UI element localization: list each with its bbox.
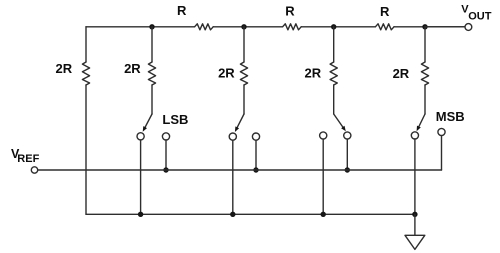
svg-text:R: R <box>380 4 390 19</box>
svg-text:2R: 2R <box>55 61 72 76</box>
resistor 2R branch5 <box>421 62 428 85</box>
terminal VREF <box>31 167 37 173</box>
svg-text:2R: 2R <box>393 66 410 81</box>
wire branch2 to switch <box>151 85 153 114</box>
svg-text:2R: 2R <box>124 61 141 76</box>
switch SW2 left contact <box>229 133 236 140</box>
svg-text:OUT: OUT <box>468 10 492 22</box>
node on rail branch 4 <box>331 24 336 29</box>
node on rail branch 2 <box>149 24 154 29</box>
wire branch3 to switch <box>243 85 245 114</box>
wire SW3 right contact to VREF line <box>346 139 348 170</box>
wire branch2 top <box>151 27 153 62</box>
switch SW3 left contact <box>320 132 327 139</box>
junction SW2 right on VREF line <box>253 167 258 172</box>
wire ground bus <box>86 213 415 215</box>
svg-text:2R: 2R <box>218 65 235 80</box>
resistor 2R branch1 <box>82 62 89 85</box>
junction SW3 right on VREF line <box>345 167 350 172</box>
wire to ground <box>414 214 416 235</box>
wire SW3 left contact to ground bus <box>322 139 324 214</box>
switch SW2 right contact <box>252 133 259 140</box>
switch SW4 lever (MSB) <box>418 114 425 128</box>
ground <box>405 235 425 249</box>
wire branch5 top <box>424 27 426 62</box>
junction bus branch2 <box>138 212 143 217</box>
svg-text:R: R <box>177 3 187 18</box>
resistor R3 <box>375 24 394 30</box>
switch SW1 lever (LSB) <box>145 114 152 128</box>
resistor 2R branch4 <box>330 62 337 85</box>
switch SW3 right contact <box>344 132 351 139</box>
wire branch4 top <box>333 27 335 62</box>
wire SW1 left contact to ground bus <box>140 140 142 214</box>
svg-text:2R: 2R <box>304 65 321 80</box>
resistor R2 <box>283 24 302 30</box>
junction bus branch4 <box>321 212 326 217</box>
resistor 2R branch3 <box>240 62 247 85</box>
node on rail branch 3 <box>241 24 246 29</box>
wire branch3 top <box>243 27 245 62</box>
resistor 2R branch2 <box>148 62 155 85</box>
switch SW3 lever (thrown right) <box>334 114 344 128</box>
junction bus branch3 <box>230 212 235 217</box>
wire top rail <box>86 26 465 28</box>
switch SW4 left contact <box>411 132 418 139</box>
switch SW1 left contact <box>137 133 144 140</box>
svg-text:LSB: LSB <box>162 112 188 127</box>
switch SW4 right contact <box>438 128 445 135</box>
resistor R1 <box>195 24 214 30</box>
switch SW1 right contact <box>162 133 169 140</box>
wire branch5 to switch <box>424 85 426 114</box>
node on rail branch 5 <box>422 24 427 29</box>
wire VREF line <box>38 169 442 171</box>
switch SW2 lever <box>237 114 244 128</box>
junction bus ground tap <box>412 212 417 217</box>
svg-text:MSB: MSB <box>436 109 465 124</box>
svg-text:REF: REF <box>17 153 39 165</box>
wire SW2 left contact to ground bus <box>232 140 234 214</box>
wire branch4 to switch <box>333 85 335 114</box>
wire SW2 right contact to VREF line <box>255 140 257 170</box>
junction SW1 right on VREF line <box>163 167 168 172</box>
terminal VOUT <box>465 24 472 31</box>
wire SW1 right contact to VREF line <box>165 140 167 170</box>
wire SW4 right contact to VREF line <box>441 136 443 170</box>
wire SW4 left contact to ground bus <box>414 139 416 214</box>
wire branch1 top <box>85 27 87 62</box>
wire VOUT stub <box>425 26 465 28</box>
svg-text:R: R <box>285 3 295 18</box>
wire branch1 bottom to ground bus <box>85 85 87 214</box>
